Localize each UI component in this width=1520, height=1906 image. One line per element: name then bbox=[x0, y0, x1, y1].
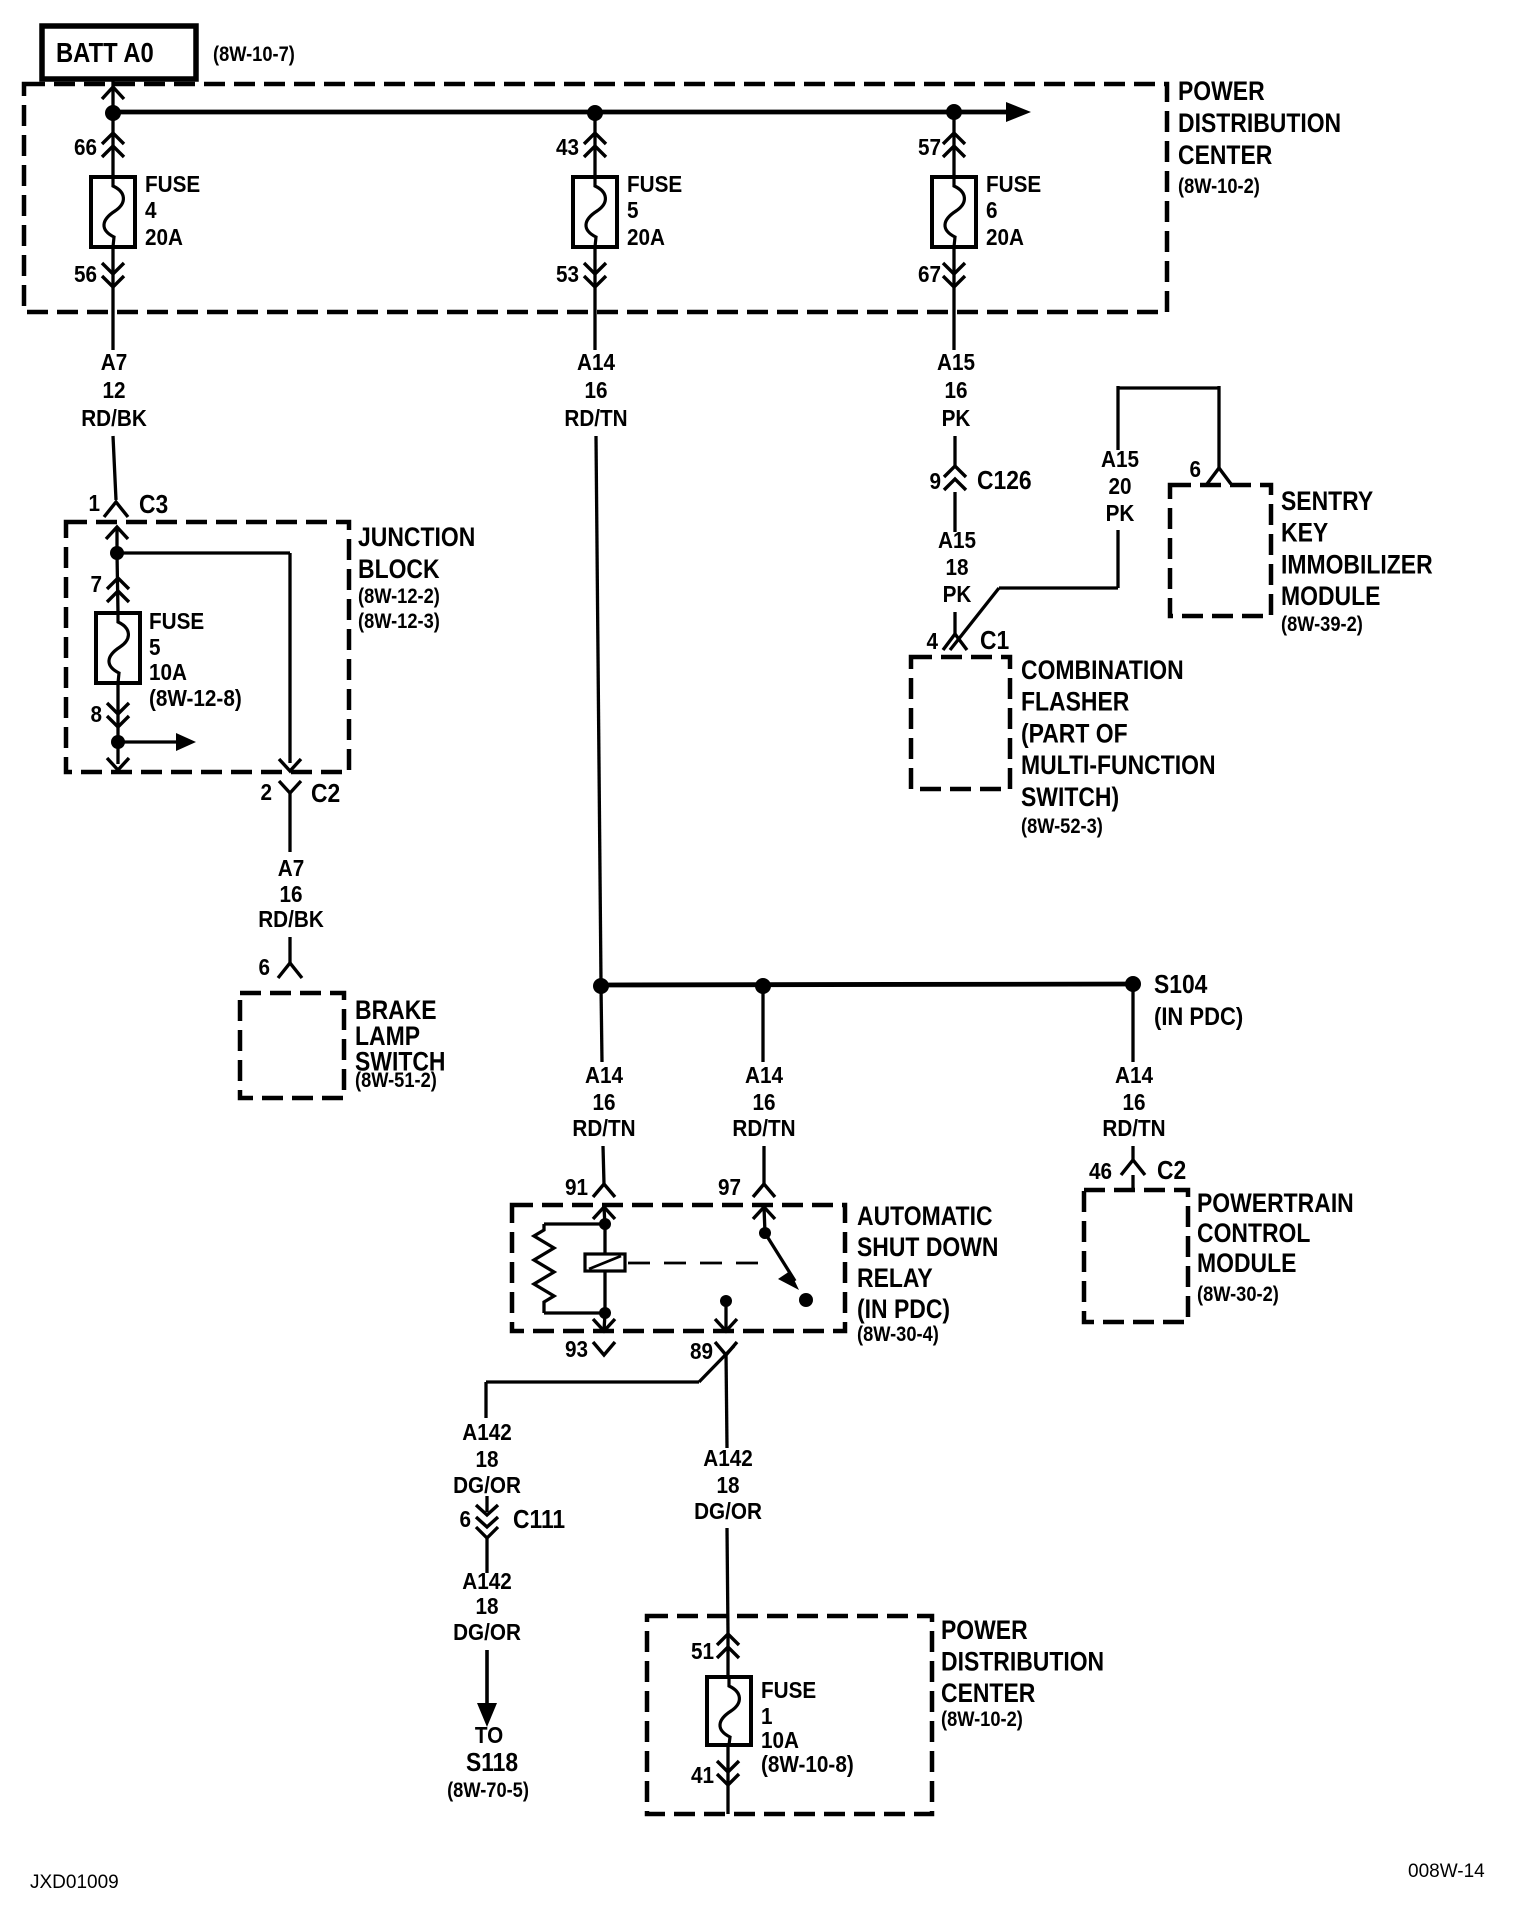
svg-text:JUNCTION: JUNCTION bbox=[358, 522, 475, 552]
combination flasher box bbox=[911, 657, 1010, 789]
junction block box bbox=[66, 522, 349, 772]
wire 89 down bbox=[726, 1352, 727, 1448]
svg-text:1: 1 bbox=[88, 490, 100, 516]
svg-text:A7: A7 bbox=[101, 349, 127, 375]
wire sentry top horizontal bbox=[1118, 386, 1219, 389]
svg-text:SENTRY: SENTRY bbox=[1281, 486, 1373, 516]
label FUSE 6 20A bbox=[986, 171, 1041, 250]
label 008W-14 bbox=[1408, 1861, 1485, 1882]
svg-text:C126: C126 bbox=[977, 467, 1032, 496]
svg-text:MULTI-FUNCTION: MULTI-FUNCTION bbox=[1021, 750, 1216, 780]
svg-text:BLOCK: BLOCK bbox=[358, 554, 440, 584]
svg-text:(IN PDC): (IN PDC) bbox=[1154, 1003, 1243, 1031]
wire label A15 16 PK bbox=[937, 349, 975, 431]
svg-text:6: 6 bbox=[258, 954, 270, 980]
wire drop2 upper bbox=[761, 986, 764, 1062]
junction dot JB bbox=[110, 546, 124, 560]
svg-text:FUSE: FUSE bbox=[627, 171, 682, 197]
svg-text:A142: A142 bbox=[462, 1419, 511, 1445]
svg-text:PK: PK bbox=[1106, 500, 1135, 526]
svg-text:(8W-52-3): (8W-52-3) bbox=[1021, 815, 1103, 838]
svg-text:16: 16 bbox=[584, 377, 607, 403]
svg-text:(8W-10-7): (8W-10-7) bbox=[213, 43, 295, 66]
svg-text:RD/TN: RD/TN bbox=[572, 1115, 635, 1141]
svg-text:(8W-30-4): (8W-30-4) bbox=[857, 1323, 939, 1346]
wire A14 long run bbox=[596, 436, 601, 983]
svg-text:S118: S118 bbox=[466, 1749, 518, 1778]
svg-text:6: 6 bbox=[1189, 456, 1201, 482]
svg-text:RD/TN: RD/TN bbox=[1102, 1115, 1165, 1141]
svg-text:16: 16 bbox=[752, 1089, 775, 1115]
label FUSE 5 20A bbox=[627, 171, 682, 250]
label SENTRY KEY IMMOBILIZER MODULE bbox=[1281, 486, 1433, 636]
pin 53 connector bbox=[556, 261, 606, 287]
wire bus S104 bbox=[601, 984, 1133, 985]
wire to brake lamp switch bbox=[288, 937, 291, 963]
wire 89 diagonal bbox=[699, 1346, 734, 1382]
wire fuse4 top bbox=[111, 113, 114, 177]
wire fuse5 bottom bbox=[593, 247, 596, 350]
svg-text:POWER: POWER bbox=[941, 1615, 1028, 1645]
svg-text:16: 16 bbox=[592, 1089, 615, 1115]
svg-text:DISTRIBUTION: DISTRIBUTION bbox=[1178, 108, 1341, 138]
svg-text:5: 5 bbox=[149, 634, 161, 660]
label (8W-10-7) bbox=[213, 43, 295, 66]
wire label A14 16 RD/TN (drop2) bbox=[732, 1062, 795, 1141]
label POWERTRAIN CONTROL MODULE bbox=[1197, 1188, 1354, 1306]
label FUSE 5 10A (8W-12-8) bbox=[149, 608, 242, 711]
fuse F5 junction block bbox=[96, 613, 140, 683]
node BATT A0 feed box bbox=[42, 26, 196, 79]
label FUSE 4 20A bbox=[145, 171, 200, 250]
connector C3 pin 1 bbox=[88, 490, 168, 519]
svg-text:43: 43 bbox=[556, 134, 579, 160]
svg-text:A15: A15 bbox=[937, 349, 975, 375]
svg-text:FUSE: FUSE bbox=[986, 171, 1041, 197]
wire sentry left vertical lower bbox=[1116, 530, 1119, 588]
brake lamp switch box bbox=[240, 993, 344, 1098]
svg-text:6: 6 bbox=[986, 197, 998, 223]
switch contact dot bbox=[799, 1293, 813, 1307]
wire label A142 18 DG/OR (right) bbox=[694, 1445, 762, 1524]
pin 6 connector brake bbox=[258, 954, 302, 980]
svg-text:4: 4 bbox=[926, 628, 938, 654]
svg-text:(8W-39-2): (8W-39-2) bbox=[1281, 613, 1363, 636]
svg-text:A142: A142 bbox=[703, 1445, 752, 1471]
fuse F4 bbox=[91, 177, 135, 247]
junction dot bus at fuse 5 bbox=[587, 105, 603, 121]
svg-text:4: 4 bbox=[145, 197, 157, 223]
automatic shut down relay box bbox=[512, 1205, 845, 1331]
svg-text:20: 20 bbox=[1108, 473, 1131, 499]
svg-text:66: 66 bbox=[74, 134, 97, 160]
svg-text:(8W-10-2): (8W-10-2) bbox=[1178, 175, 1260, 198]
wire drop1 upper bbox=[601, 986, 602, 1062]
wire drop1 lower bbox=[603, 1146, 604, 1184]
svg-text:A15: A15 bbox=[1101, 446, 1139, 472]
wire drop2 lower bbox=[762, 1146, 765, 1184]
svg-text:20A: 20A bbox=[627, 224, 665, 250]
svg-text:PK: PK bbox=[943, 581, 972, 607]
svg-text:18: 18 bbox=[475, 1593, 498, 1619]
power distribution center box (top) bbox=[24, 84, 1167, 312]
wire fuse1 top bbox=[726, 1634, 729, 1677]
fuse F1 bbox=[707, 1677, 751, 1745]
svg-text:FUSE: FUSE bbox=[761, 1677, 816, 1703]
svg-text:46: 46 bbox=[1089, 1158, 1112, 1184]
svg-text:10A: 10A bbox=[761, 1727, 799, 1753]
junction dot relay coil bottom bbox=[599, 1307, 611, 1319]
arrowhead bus right bbox=[1006, 102, 1031, 122]
svg-text:10A: 10A bbox=[149, 659, 187, 685]
wire into C1 bbox=[953, 612, 956, 634]
svg-text:C2: C2 bbox=[1157, 1157, 1186, 1186]
svg-text:A142: A142 bbox=[462, 1568, 511, 1594]
junction dot bus drop 2 bbox=[755, 978, 771, 994]
label POWER DISTRIBUTION CENTER (8W-10-2) bbox=[1178, 76, 1341, 198]
svg-text:2: 2 bbox=[260, 779, 272, 805]
wire label A7 12 RD/BK bbox=[81, 349, 147, 431]
svg-text:SHUT DOWN: SHUT DOWN bbox=[857, 1232, 998, 1262]
svg-text:(8W-12-3): (8W-12-3) bbox=[358, 610, 440, 633]
svg-text:RD/BK: RD/BK bbox=[258, 906, 324, 932]
wire label A142 18 DG/OR (left lower) bbox=[453, 1568, 521, 1645]
fuse F5 bbox=[573, 177, 617, 247]
wire sentry left vertical upper bbox=[1116, 386, 1119, 450]
svg-text:DG/OR: DG/OR bbox=[453, 1619, 521, 1645]
wire left A142 upper bbox=[484, 1382, 487, 1418]
svg-text:5: 5 bbox=[627, 197, 639, 223]
label AUTOMATIC SHUT DOWN RELAY (IN PDC) bbox=[857, 1201, 998, 1346]
svg-text:7: 7 bbox=[90, 571, 102, 597]
svg-text:12: 12 bbox=[102, 377, 125, 403]
svg-text:56: 56 bbox=[74, 261, 97, 287]
svg-text:POWERTRAIN: POWERTRAIN bbox=[1197, 1188, 1354, 1218]
label POWER DISTRIBUTION CENTER (bottom) bbox=[941, 1615, 1104, 1731]
svg-text:POWER: POWER bbox=[1178, 76, 1265, 106]
svg-text:SWITCH): SWITCH) bbox=[1021, 782, 1119, 812]
svg-text:FUSE: FUSE bbox=[145, 171, 200, 197]
svg-text:6: 6 bbox=[459, 1506, 471, 1532]
wire A15 upper bbox=[953, 436, 956, 466]
svg-text:A14: A14 bbox=[1115, 1062, 1154, 1088]
svg-text:(8W-12-2): (8W-12-2) bbox=[358, 585, 440, 608]
svg-text:(8W-51-2): (8W-51-2) bbox=[355, 1069, 437, 1092]
pin 89 connector bbox=[690, 1301, 737, 1364]
svg-text:DG/OR: DG/OR bbox=[453, 1472, 521, 1498]
wire 89 horizontal bbox=[486, 1380, 699, 1383]
pin 97 connector bbox=[718, 1174, 775, 1233]
pin 56 connector bbox=[74, 261, 124, 287]
pin 1 male arrow bbox=[106, 527, 128, 553]
pin 89 dot bbox=[720, 1295, 732, 1307]
relay coil K1 bbox=[585, 1254, 625, 1271]
wire JB down to fuse bbox=[117, 553, 118, 613]
junction dot bus at fuse 4 bbox=[105, 105, 121, 121]
svg-text:9: 9 bbox=[929, 468, 941, 494]
pin 67 connector bbox=[918, 261, 965, 287]
svg-text:DISTRIBUTION: DISTRIBUTION bbox=[941, 1647, 1104, 1677]
svg-text:16: 16 bbox=[279, 881, 302, 907]
wire label A15 20 PK bbox=[1101, 446, 1139, 526]
svg-text:DG/OR: DG/OR bbox=[694, 1498, 762, 1524]
wire above C111 bbox=[0, 0, 1, 1]
svg-text:(8W-70-5): (8W-70-5) bbox=[447, 1779, 529, 1802]
pin JB bottom arrow bbox=[107, 758, 129, 770]
label JXD01009 bbox=[30, 1872, 119, 1893]
svg-text:C1: C1 bbox=[980, 627, 1009, 656]
svg-text:(PART OF: (PART OF bbox=[1021, 719, 1128, 749]
svg-text:(8W-10-2): (8W-10-2) bbox=[941, 1708, 1023, 1731]
wire JB fuse bottom bbox=[116, 683, 119, 764]
wire to S118 arrow bbox=[485, 1650, 489, 1705]
svg-text:20A: 20A bbox=[986, 224, 1024, 250]
splice S104 dot bbox=[1125, 976, 1141, 992]
svg-text:1: 1 bbox=[761, 1703, 773, 1729]
wire JB arrow right bbox=[118, 740, 178, 743]
wire label A14 16 RD/TN (top) bbox=[564, 349, 627, 431]
svg-text:16: 16 bbox=[944, 377, 967, 403]
svg-text:53: 53 bbox=[556, 261, 579, 287]
svg-text:A14: A14 bbox=[577, 349, 616, 375]
junction dot relay coil top bbox=[599, 1218, 611, 1230]
wire sentry right vertical bbox=[1217, 386, 1220, 468]
svg-text:FUSE: FUSE bbox=[149, 608, 204, 634]
pin 2 male arrow bbox=[279, 759, 301, 771]
svg-text:MODULE: MODULE bbox=[1281, 581, 1380, 611]
pin 8 connector bbox=[90, 701, 129, 727]
svg-text:CONTROL: CONTROL bbox=[1197, 1218, 1310, 1248]
pin 91 connector bbox=[565, 1174, 615, 1226]
svg-text:S104: S104 bbox=[1154, 971, 1208, 1000]
connector C126 pin 9 bbox=[929, 466, 1031, 495]
label S104 (IN PDC) bbox=[1154, 971, 1243, 1031]
svg-text:18: 18 bbox=[716, 1472, 739, 1498]
wire below C126 bbox=[953, 492, 956, 532]
svg-text:CENTER: CENTER bbox=[941, 1678, 1035, 1708]
wire sentry diagonal to C1 bbox=[950, 588, 999, 650]
pin 57 connector bbox=[918, 133, 965, 160]
wire fuse5 top bbox=[593, 113, 596, 177]
svg-text:TO: TO bbox=[475, 1722, 503, 1748]
svg-text:(8W-12-8): (8W-12-8) bbox=[149, 685, 242, 711]
label JUNCTION BLOCK bbox=[358, 522, 475, 633]
wire label A7 16 RD/BK bbox=[258, 855, 324, 932]
svg-text:93: 93 bbox=[565, 1336, 588, 1362]
connector C2 pin 46 bbox=[1089, 1157, 1186, 1190]
sentry key immobilizer module box bbox=[1170, 485, 1271, 616]
wire A7 to junction block bbox=[113, 436, 116, 500]
power distribution center box (bottom) bbox=[647, 1616, 932, 1814]
svg-text:16: 16 bbox=[1122, 1089, 1145, 1115]
junction dot JB lower bbox=[111, 735, 125, 749]
label FUSE 1 10A (8W-10-8) bbox=[761, 1677, 854, 1777]
resistor relay bbox=[534, 1224, 605, 1313]
junction dot bus at fuse 6 bbox=[946, 104, 962, 120]
svg-text:A14: A14 bbox=[745, 1062, 784, 1088]
svg-text:PK: PK bbox=[942, 405, 971, 431]
connector C1 pin 4 bbox=[926, 627, 1009, 656]
svg-text:COMBINATION: COMBINATION bbox=[1021, 655, 1184, 685]
wire into bottom PDC bbox=[727, 1528, 728, 1634]
svg-text:8: 8 bbox=[90, 701, 102, 727]
svg-text:A15: A15 bbox=[938, 527, 976, 553]
wire fuse1 bottom bbox=[726, 1745, 729, 1814]
svg-text:57: 57 bbox=[918, 134, 941, 160]
svg-text:(IN PDC): (IN PDC) bbox=[857, 1294, 950, 1324]
connector C111 pin 6 bbox=[459, 1496, 565, 1573]
wire fuse4 bottom bbox=[111, 247, 114, 350]
svg-text:67: 67 bbox=[918, 261, 941, 287]
pin 51 connector bbox=[691, 1634, 739, 1664]
svg-text:(8W-30-2): (8W-30-2) bbox=[1197, 1283, 1279, 1306]
wire S104 to PCM bbox=[1131, 984, 1134, 1062]
svg-text:(8W-10-8): (8W-10-8) bbox=[761, 1751, 854, 1777]
wire fuse6 top bbox=[952, 112, 955, 177]
svg-text:008W-14: 008W-14 bbox=[1408, 1861, 1485, 1882]
svg-text:91: 91 bbox=[565, 1174, 588, 1200]
svg-text:18: 18 bbox=[475, 1446, 498, 1472]
wire coil bottom bbox=[603, 1271, 606, 1313]
fuse F6 bbox=[932, 177, 976, 247]
mechanical link dashed bbox=[628, 1262, 765, 1265]
label BRAKE LAMP SWITCH bbox=[355, 995, 445, 1092]
svg-text:51: 51 bbox=[691, 1638, 714, 1664]
wire coil top bbox=[603, 1224, 606, 1254]
svg-text:RELAY: RELAY bbox=[857, 1263, 933, 1293]
svg-text:RD/TN: RD/TN bbox=[564, 405, 627, 431]
wire into C2 PCM bbox=[1131, 1146, 1134, 1160]
pin 43 connector bbox=[556, 133, 606, 160]
svg-text:C111: C111 bbox=[513, 1506, 565, 1535]
svg-text:RD/TN: RD/TN bbox=[732, 1115, 795, 1141]
svg-text:FLASHER: FLASHER bbox=[1021, 687, 1129, 717]
wire label A15 18 PK bbox=[938, 527, 976, 607]
svg-text:A14: A14 bbox=[585, 1062, 624, 1088]
arrowhead JB bbox=[176, 733, 196, 751]
svg-text:JXD01009: JXD01009 bbox=[30, 1872, 119, 1893]
powertrain control module box bbox=[1084, 1190, 1188, 1322]
svg-text:97: 97 bbox=[718, 1174, 741, 1200]
svg-text:RD/BK: RD/BK bbox=[81, 405, 147, 431]
svg-text:KEY: KEY bbox=[1281, 518, 1328, 548]
svg-text:89: 89 bbox=[690, 1338, 713, 1364]
label COMBINATION FLASHER bbox=[1021, 655, 1216, 838]
wire sentry horizontal to bend bbox=[999, 586, 1118, 589]
connector C2 pin 2 bbox=[260, 779, 340, 852]
wire label A14 16 RD/TN (drop1) bbox=[572, 1062, 635, 1141]
arrowhead S118 bbox=[477, 1703, 497, 1727]
wire label A14 16 RD/TN (PCM) bbox=[1102, 1062, 1165, 1141]
pin 7 connector bbox=[90, 571, 129, 602]
svg-text:BATT A0: BATT A0 bbox=[56, 36, 154, 68]
pin 66 connector bbox=[74, 133, 124, 160]
svg-text:C3: C3 bbox=[139, 491, 168, 520]
wire label A142 18 DG/OR (left upper) bbox=[453, 1419, 521, 1498]
wire JB branch right bbox=[117, 551, 290, 554]
wire bus A0 bbox=[113, 110, 1008, 115]
switch common dot bbox=[759, 1227, 771, 1239]
svg-text:41: 41 bbox=[691, 1762, 714, 1788]
svg-text:20A: 20A bbox=[145, 224, 183, 250]
svg-text:AUTOMATIC: AUTOMATIC bbox=[857, 1201, 993, 1231]
svg-text:CENTER: CENTER bbox=[1178, 140, 1272, 170]
label TO S118 (8W-70-5) bbox=[447, 1722, 529, 1802]
wire JB right branch down bbox=[288, 553, 291, 763]
svg-text:IMMOBILIZER: IMMOBILIZER bbox=[1281, 550, 1433, 580]
svg-text:MODULE: MODULE bbox=[1197, 1248, 1296, 1278]
pin 6 connector sentry bbox=[1189, 456, 1231, 484]
svg-text:A7: A7 bbox=[278, 855, 304, 881]
svg-text:C2: C2 bbox=[311, 780, 340, 809]
wire fuse6 bottom bbox=[952, 247, 955, 350]
switch arm bbox=[765, 1233, 799, 1290]
pin 41 connector bbox=[691, 1761, 739, 1788]
junction dot bus drop 1 bbox=[593, 978, 609, 994]
pin 93 connector bbox=[565, 1313, 615, 1362]
svg-text:18: 18 bbox=[945, 554, 968, 580]
wire BATT A0 to bus bbox=[102, 79, 124, 117]
